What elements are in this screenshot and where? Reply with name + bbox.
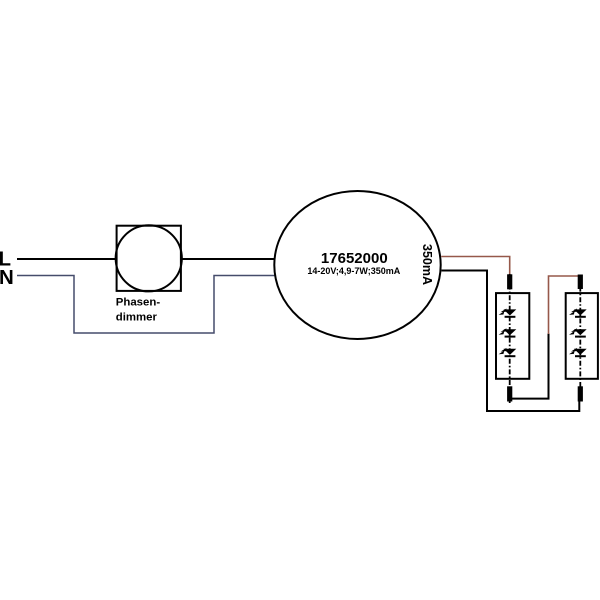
wire red driver output <box>441 257 510 275</box>
module LM2 outline <box>566 293 598 379</box>
svg-text:Phasen-: Phasen- <box>116 297 161 309</box>
LED D2 <box>499 328 517 337</box>
wire module1 to module2 black part <box>510 334 549 399</box>
terminal LM1 bottom <box>507 386 512 401</box>
LED D4 <box>569 309 587 318</box>
driver ellipse 17652000 <box>274 191 440 339</box>
phase dimmer box <box>117 226 181 291</box>
module LM2 centerline <box>579 276 581 403</box>
LED D1 <box>499 309 517 318</box>
LED D6 <box>569 348 587 357</box>
module LM1 outline <box>496 293 529 379</box>
phase dimmer circle <box>116 225 182 291</box>
wire black driver return <box>442 271 580 412</box>
label Phasen-dimmer <box>116 297 161 324</box>
terminal LM2 bottom <box>578 386 583 401</box>
module LM1 centerline <box>509 274 511 403</box>
wire N (blue) <box>17 276 275 334</box>
wire L to dimmer <box>17 258 116 260</box>
svg-text:350mA: 350mA <box>420 244 434 285</box>
svg-text:dimmer: dimmer <box>116 312 158 324</box>
LED D5 <box>569 328 587 337</box>
terminal LM2 top <box>578 275 583 290</box>
wire module1 to module2 red part <box>549 276 581 334</box>
svg-text:N: N <box>0 266 14 289</box>
svg-text:14-20V;4,9-7W;350mA: 14-20V;4,9-7W;350mA <box>307 266 400 276</box>
LED D3 <box>499 348 517 357</box>
wire dimmer to driver <box>182 258 275 260</box>
svg-text:17652000: 17652000 <box>321 250 388 267</box>
terminal LM1 top <box>507 274 512 289</box>
